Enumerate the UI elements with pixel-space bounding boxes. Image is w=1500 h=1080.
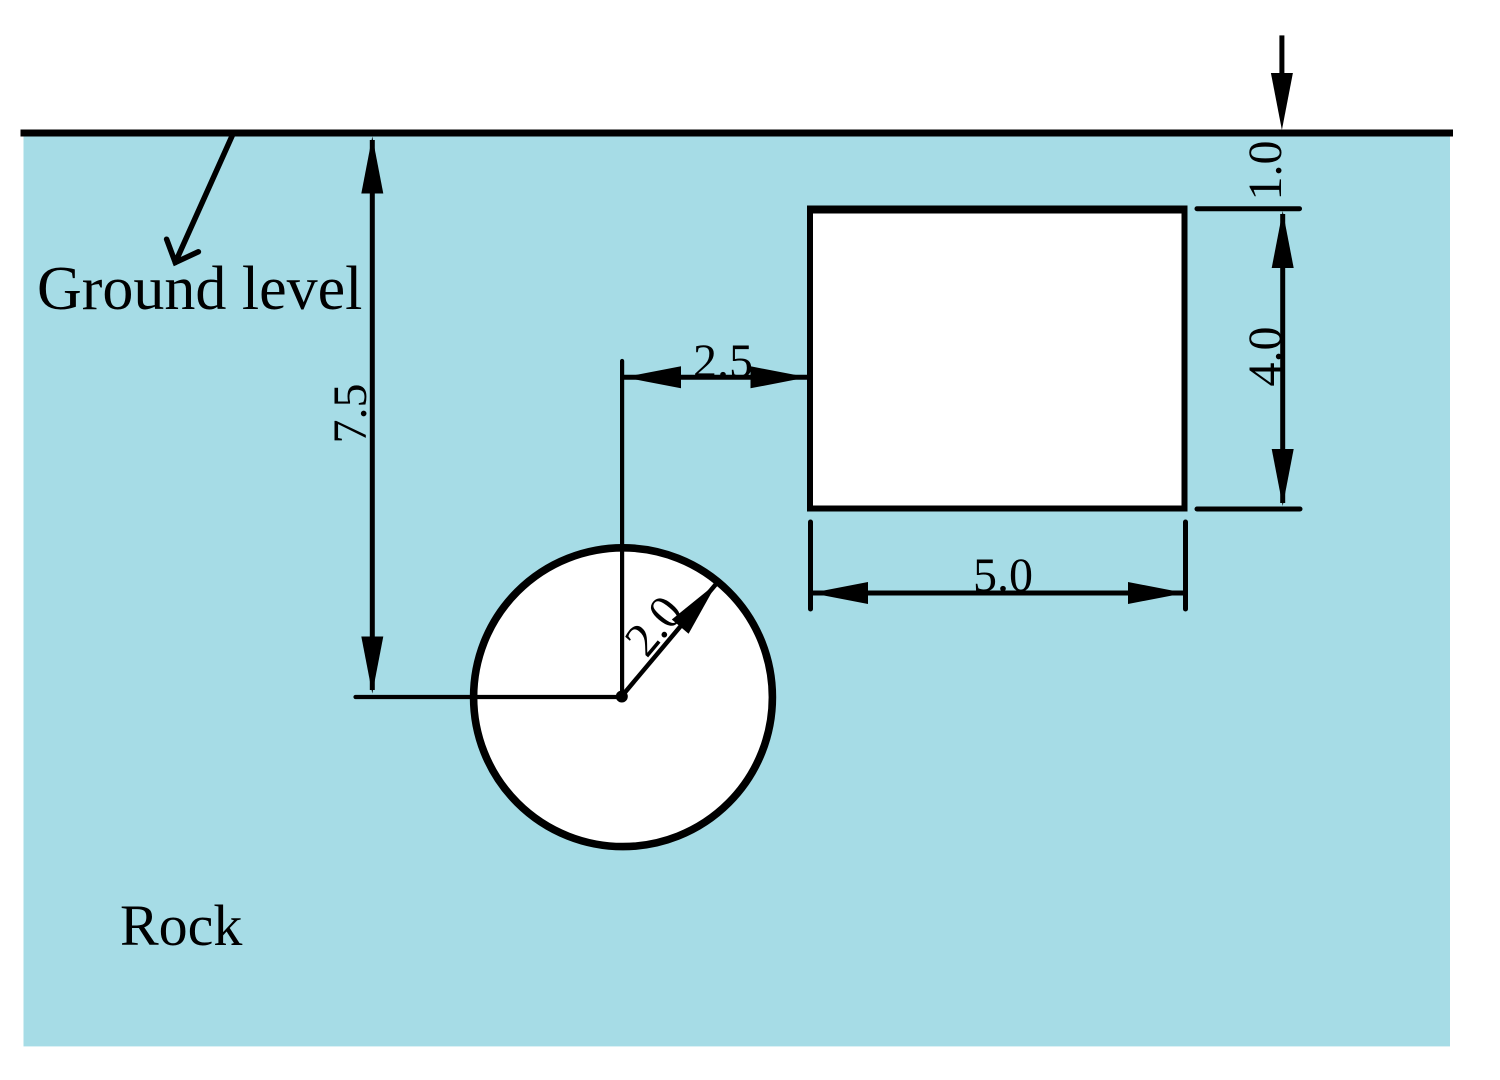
svg-text:5.0: 5.0	[973, 549, 1033, 602]
dimension 4.0 (cavern height)	[1197, 209, 1300, 509]
svg-text:2.5: 2.5	[693, 335, 753, 388]
ground level line	[21, 130, 1454, 137]
cavern rectangle top edge (thicker in source)	[807, 211, 1188, 214]
svg-text:4.0: 4.0	[1239, 327, 1292, 387]
circle center dot	[616, 691, 628, 703]
svg-text:1.0: 1.0	[1239, 141, 1292, 201]
svg-text:Ground level: Ground level	[37, 255, 362, 323]
svg-text:Rock: Rock	[120, 893, 242, 958]
dimension 1.0 (cavern roof depth)	[1239, 35, 1293, 200]
leader arrow to ground line	[167, 135, 233, 263]
dimension 2.5 (circle centre to cavern)	[624, 335, 808, 388]
vertical line from circle center up to 2.5 dim	[620, 361, 624, 697]
svg-text:7.5: 7.5	[324, 384, 377, 444]
tunnel circle	[474, 548, 773, 847]
horizontal line from 7.5 dim to circle center	[356, 695, 623, 699]
cavern rectangle	[810, 209, 1185, 509]
dimension 7.5 (depth to circle centre)	[324, 137, 383, 694]
radius arrow 2.0	[615, 583, 717, 697]
dimension 5.0 (cavern width)	[811, 522, 1186, 609]
